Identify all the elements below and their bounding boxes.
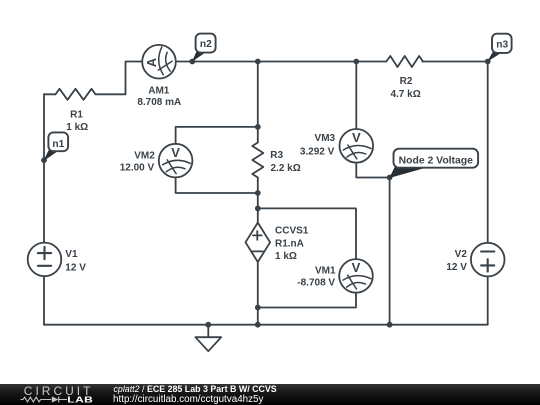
svg-text:V: V [352,260,361,275]
node n3 dot [485,59,491,65]
junction node2 rail bottom [387,322,393,328]
wire: top-left corner vertical (R1 to AM1 level) [126,62,143,95]
svg-text:R2: R2 [400,76,413,87]
resistor R3 [252,143,263,178]
svg-text:R1: R1 [70,109,83,120]
svg-text:V2: V2 [455,249,468,260]
svg-text:-8.708 V: -8.708 V [297,278,335,289]
svg-text:V1: V1 [65,249,78,260]
svg-text:3.292 V: 3.292 V [300,146,335,157]
dependent source CCVS1 [246,223,271,262]
wire: VM2 bottom loop [176,177,258,193]
svg-text:1 kΩ: 1 kΩ [275,251,297,262]
svg-text:cplatt2 / ECE 285 Lab 3 Part B: cplatt2 / ECE 285 Lab 3 Part B W/ CCVS [114,384,277,394]
junction top VM3 [353,59,359,65]
junction CCVS1 top [255,206,261,212]
wire: node2 junction down to bottom rail [389,178,391,325]
wire: right rail below V2 [487,276,489,324]
svg-text:1 kΩ: 1 kΩ [66,122,88,133]
wire: middle rail top (n2 rail down to R3) [257,62,259,143]
wire: top rail AM1 to R2 [176,61,386,63]
voltmeter VM2 [159,144,193,178]
junction VM2 bottom [255,190,261,196]
junction middle rail bottom [255,322,261,328]
svg-text:Node 2 Voltage: Node 2 Voltage [399,155,474,166]
voltmeter VM3 [340,129,374,163]
node n2 dot [189,59,195,65]
junction top middle rail [255,59,261,65]
svg-text:12.00 V: 12.00 V [120,163,155,174]
svg-text:VM3: VM3 [315,133,336,144]
svg-text:n3: n3 [496,40,508,51]
wire: VM3 bottom to node2 junction [356,163,389,178]
ammeter AM1 [142,45,176,79]
svg-text:V: V [352,130,361,145]
svg-text:VM1: VM1 [315,265,336,276]
voltage source V2 [471,243,505,277]
wire: CCVS1 top to VM1 [258,208,356,259]
wire: left rail [43,94,45,242]
svg-text:http://circuitlab.com/cctgutva: http://circuitlab.com/cctgutva4hz5y [113,394,264,405]
svg-text:12 V: 12 V [65,262,86,273]
svg-text:A: A [144,57,159,67]
svg-text:8.708 mA: 8.708 mA [137,97,181,108]
wire: VM1 bottom to CCVS1 bottom [258,293,356,308]
resistor R2 [386,56,423,67]
svg-text:VM2: VM2 [134,150,155,161]
svg-text:n2: n2 [200,39,212,50]
svg-text:R1.nA: R1.nA [275,239,304,250]
resistor R1 [56,89,126,100]
svg-text:n1: n1 [52,139,64,150]
svg-text:V: V [171,145,180,160]
wire: bottom rail [44,324,488,326]
svg-text:LAB: LAB [67,396,93,405]
junction CCVS1 bottom [255,305,261,311]
node flag Node 2 Voltage [389,149,478,178]
wire: left rail below V1 [43,276,45,325]
node flag n1 [43,132,68,161]
junction ground [205,322,211,328]
wire: R3 to CCVS1 [257,178,259,223]
voltage source V1 [28,243,62,277]
wire: VM3 top [355,62,357,130]
footer bar [0,384,540,405]
wire: R2 to n3 [422,61,487,63]
svg-text:4.7 kΩ: 4.7 kΩ [390,89,420,100]
ground [207,325,209,338]
wire: VM2 top loop [176,127,258,144]
wire: left rail top to R1 [44,93,56,95]
svg-text:CCVS1: CCVS1 [275,225,309,236]
node 2 voltage dot [387,175,393,181]
wire: CCVS1 bottom to bottom rail [257,262,259,325]
junction VM2 top [255,124,261,130]
wire: right rail top [487,62,489,243]
svg-text:AM1: AM1 [148,85,170,96]
svg-text:2.2 kΩ: 2.2 kΩ [271,163,301,174]
node flag n2 [192,34,216,62]
svg-text:R3: R3 [270,150,283,161]
svg-text:12 V: 12 V [446,262,467,273]
node flag n3 [487,34,511,62]
CircuitLab logo resistor-diode-LAB [21,397,68,403]
voltmeter VM1 [339,259,373,293]
node n1 dot [41,157,47,163]
